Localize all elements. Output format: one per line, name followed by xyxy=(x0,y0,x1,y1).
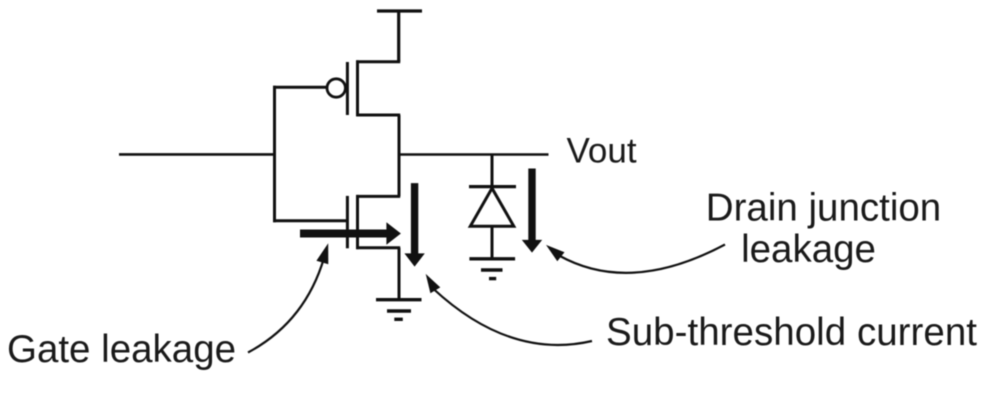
annotation arrow curve: drain junction label to arrow xyxy=(559,245,725,273)
wire: PMOS drain to NMOS drain vertical xyxy=(398,115,401,196)
annotation arrowhead: to sub-threshold xyxy=(426,274,441,293)
svg-text:Gate leakage: Gate leakage xyxy=(7,328,236,371)
annotation arrow curve: sub-threshold label to arrow xyxy=(433,289,592,345)
wire: output to Vout xyxy=(398,153,549,156)
current arrow: sub-threshold (bold vertical) xyxy=(404,183,424,267)
wire: branch to PMOS gate xyxy=(273,86,327,89)
transistor M1 PMOS gate bar xyxy=(346,62,349,115)
transistor M2 NMOS gate bar xyxy=(346,196,349,248)
VDD supply bar xyxy=(377,9,422,12)
transistor M2 NMOS channel bar xyxy=(356,195,359,249)
transistor M1 PMOS channel bar xyxy=(356,60,359,116)
transistor M1 PMOS bubble xyxy=(327,79,345,97)
wire: branch to NMOS gate xyxy=(273,219,347,222)
transistor M1 PMOS drain stub xyxy=(356,114,400,117)
annotation arrowhead: to drain junction xyxy=(546,245,565,261)
svg-text:Drain junction: Drain junction xyxy=(706,187,941,230)
svg-text:Vout: Vout xyxy=(567,132,637,171)
transistor M2 NMOS source stub xyxy=(356,246,400,249)
diode D1 drain junction: cathode bar xyxy=(469,185,516,188)
svg-text:leakage: leakage xyxy=(741,228,876,271)
current arrow: drain junction (bold vertical) xyxy=(522,169,542,253)
annotation arrow curve: gate leakage label to gate xyxy=(248,258,324,353)
current arrow: gate leakage (bold horizontal) xyxy=(300,222,401,244)
annotation arrowhead: to gate xyxy=(316,243,328,264)
ground below NMOS xyxy=(376,300,422,320)
wire: VDD lead down to PMOS source xyxy=(397,11,400,62)
wire: diode anode down to ground xyxy=(491,226,494,258)
wire: Vout down to diode cathode xyxy=(491,155,494,188)
transistor M2 NMOS drain stub xyxy=(356,195,400,198)
wire: input xyxy=(119,153,275,156)
diode D1 triangle xyxy=(470,188,514,226)
svg-text:Sub-threshold current: Sub-threshold current xyxy=(606,311,977,354)
wire: gate bus vertical xyxy=(273,86,276,222)
transistor M1 PMOS source stub xyxy=(356,60,400,63)
wire: NMOS source down to ground xyxy=(398,248,401,300)
ground below diode xyxy=(469,259,515,279)
